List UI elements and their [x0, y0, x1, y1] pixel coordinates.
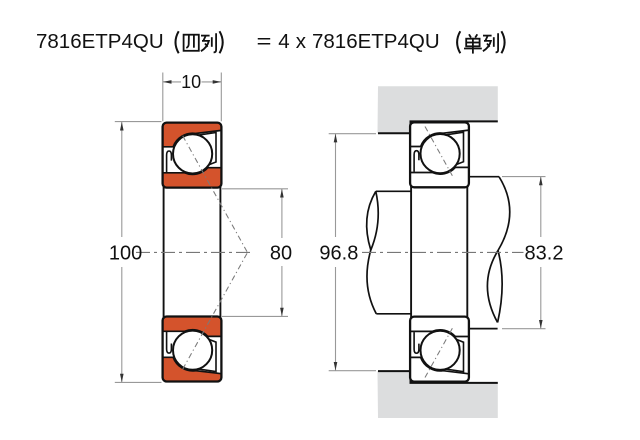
- dim 83.2 line: [540, 177, 542, 237]
- title fullwidth paren open 2: [457, 31, 460, 53]
- dim 83.2 arrows: [539, 177, 543, 186]
- dim 10 extension lines: [162, 73, 164, 122]
- shaft left break line: [367, 191, 376, 250]
- dim 96.8 arrows: [334, 134, 338, 143]
- left contact line top: [183, 136, 248, 253]
- svg-text:83.2: 83.2: [525, 243, 564, 265]
- svg-text:7816ETP4QU: 7816ETP4QU: [36, 30, 164, 53]
- dim 100 extension lines: [115, 121, 162, 123]
- left centerline: [136, 251, 254, 253]
- dim 10 arrows: [163, 80, 172, 84]
- shaft left segment outline: [367, 191, 411, 313]
- dim 80 arrows: [280, 189, 284, 198]
- housing upper block: [378, 86, 498, 133]
- svg-text:4: 4: [278, 30, 289, 53]
- bearing bore connector lines right figure: [410, 186, 412, 318]
- right bearing bottom section: [410, 317, 469, 382]
- left contact line bottom: [183, 253, 248, 370]
- left bearing top section: [163, 123, 222, 188]
- title fullwidth paren open 1: [176, 31, 179, 53]
- title fullwidth paren close 2: [501, 31, 504, 53]
- glyph 单: [464, 34, 482, 53]
- dim 100 arrows: [120, 122, 124, 131]
- right contact line top: [425, 127, 453, 177]
- svg-text:7816ETP4QU: 7816ETP4QU: [312, 30, 440, 53]
- dim 80 line: [281, 189, 283, 238]
- svg-text:x: x: [296, 30, 307, 53]
- bearing bore connector lines left figure: [163, 186, 165, 318]
- title fullwidth paren close 1: [220, 31, 223, 53]
- right bearing top section: [410, 122, 469, 187]
- right centerline: [362, 251, 524, 253]
- housing lower block: [378, 371, 498, 418]
- housing upper bore lines: [378, 121, 498, 133]
- right contact line bottom: [425, 328, 453, 378]
- dim 10 line: [163, 81, 181, 83]
- dim 83.2 extension lines: [502, 176, 546, 178]
- housing lower bore lines: [378, 371, 498, 383]
- left bearing bottom section: [163, 317, 222, 382]
- dim 80 extension lines: [222, 188, 288, 190]
- svg-text:=: =: [257, 30, 272, 53]
- svg-text:10: 10: [181, 72, 201, 92]
- svg-text:96.8: 96.8: [319, 243, 358, 265]
- glyph 列 (second): [483, 33, 498, 52]
- shaft right break line: [498, 177, 510, 251]
- dim 96.8 line: [335, 134, 337, 237]
- svg-text:100: 100: [109, 243, 142, 265]
- glyph 列: [201, 33, 216, 52]
- svg-text:80: 80: [270, 243, 292, 265]
- shaft right segment outline: [468, 177, 510, 329]
- dim 100 line: [121, 122, 123, 237]
- glyph 四: [184, 35, 199, 51]
- dim 96.8 extension lines: [329, 133, 376, 135]
